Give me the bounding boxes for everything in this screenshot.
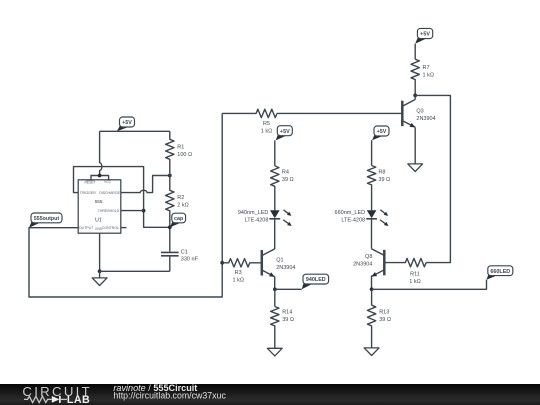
- wire C1 bottom to ground node: [100, 270, 170, 272]
- node junction THRESHOLD: [142, 209, 146, 213]
- wire CONTROL stub: [121, 227, 127, 229]
- label C1 value: [181, 250, 199, 263]
- label R8 value: [378, 170, 390, 184]
- wire RESET-VCC bridge: [91, 176, 109, 181]
- wire emitter node to 940LED flag: [275, 288, 302, 290]
- footer url text: [113, 391, 226, 401]
- wire LED to Q8 collector: [371, 219, 373, 249]
- label R4 value: [282, 170, 294, 184]
- label R14 value: [282, 310, 294, 324]
- wire node to R13: [371, 289, 373, 305]
- resistor R13: [367, 305, 375, 348]
- wire R7 node to Q3: [414, 95, 416, 99]
- label R3 value: [232, 270, 243, 284]
- resistor R11: [384, 258, 426, 266]
- label R5 value: [261, 121, 272, 134]
- ground under 555: [92, 271, 107, 285]
- label R1 value: [177, 144, 192, 158]
- node junction R1/R2/DISCHARGE: [168, 174, 172, 178]
- resistor R1: [166, 131, 174, 175]
- node junction +5V/RESET/VCC: [98, 174, 102, 178]
- capacitor C1: [161, 227, 179, 271]
- wire LED to Q1 collector: [274, 219, 276, 249]
- wire +5V to R7: [414, 44, 416, 59]
- power +5V flag middle: [276, 126, 293, 141]
- wire +5V to R8: [371, 140, 373, 165]
- wire OUTPUT to 555output node and down-around to R3/R5 trunk: [29, 113, 222, 297]
- label R2 value: [177, 195, 188, 209]
- LED 940nm D1: [269, 210, 291, 226]
- wire trigger-threshold-cap loop: [74, 167, 170, 228]
- transistor Q1: [262, 249, 275, 277]
- svg-text:http://circuitlab.com/cw37xuc: http://circuitlab.com/cw37xuc: [113, 391, 226, 401]
- CircuitLab logo resistor squiggle: [24, 396, 52, 402]
- resistor R2: [166, 176, 174, 228]
- svg-text:LAB: LAB: [67, 394, 90, 405]
- wire +5V to R4: [274, 140, 276, 166]
- wire +5V rail to R1: [100, 130, 170, 132]
- footer bar: [0, 384, 540, 405]
- node junction Q8 emitter: [370, 287, 374, 291]
- wire +5V rail drop to 555 with hop: [100, 131, 102, 175]
- label Q3: [416, 108, 435, 122]
- wire GND pin of 555: [99, 233, 101, 271]
- CircuitLab logo text: [22, 384, 92, 399]
- wire Q3 emitter to ground: [414, 127, 416, 164]
- wire Q1 emitter down: [274, 277, 276, 290]
- power +5V flag top-right: [415, 28, 433, 43]
- transistor Q8: [371, 249, 384, 277]
- resistor R4: [271, 166, 279, 210]
- wire node to R14: [274, 289, 276, 306]
- node junction Q1 emitter: [273, 287, 277, 291]
- resistor R7: [411, 59, 419, 95]
- wire emitter node to 660LED flag: [372, 280, 487, 290]
- node junction cap: [168, 225, 172, 229]
- node 940LED flag: [302, 274, 329, 289]
- ground under Q3: [408, 164, 423, 172]
- resistor R8: [367, 166, 375, 211]
- LED 660nm D2: [366, 210, 388, 226]
- wire Q3 collector feedback right-down to R11: [415, 95, 450, 262]
- label Q8: [353, 254, 372, 268]
- ground under R13: [364, 348, 379, 356]
- label R7 value: [423, 65, 434, 79]
- label 940nm_LED: [238, 210, 269, 224]
- op-amp U1 555 timer: [78, 180, 121, 233]
- label R13 value: [379, 310, 391, 324]
- label 660nm_LED: [335, 210, 366, 224]
- wire DISCHARGE pin with hop to R1/R2 node: [121, 176, 170, 193]
- ground under R14: [267, 348, 282, 356]
- wire Q8 emitter down: [371, 275, 373, 289]
- resistor R14: [271, 307, 279, 349]
- wire R5 row / Q3 base: [277, 112, 402, 114]
- label Q1: [276, 257, 295, 271]
- power +5V flag right-middle: [372, 126, 389, 140]
- label R11 value: [409, 271, 420, 285]
- power +5V flag top-left: [117, 117, 135, 131]
- node junction R7/Q3 collector: [413, 94, 417, 98]
- resistor R5: [222, 109, 277, 117]
- resistor R3: [222, 259, 262, 267]
- node cap flag: [170, 213, 186, 227]
- footer title text: [113, 383, 197, 393]
- node junction GND/C1: [98, 269, 102, 273]
- transistor Q3: [402, 100, 415, 128]
- node 555output flag: [29, 213, 62, 228]
- CircuitLab logo diode arrow: [52, 396, 67, 403]
- node junction R3/R5/output trunk: [220, 261, 224, 265]
- wire THRESHOLD pin: [121, 210, 144, 212]
- node 660LED flag: [487, 266, 513, 280]
- CircuitLab logo LAB text: [67, 394, 90, 405]
